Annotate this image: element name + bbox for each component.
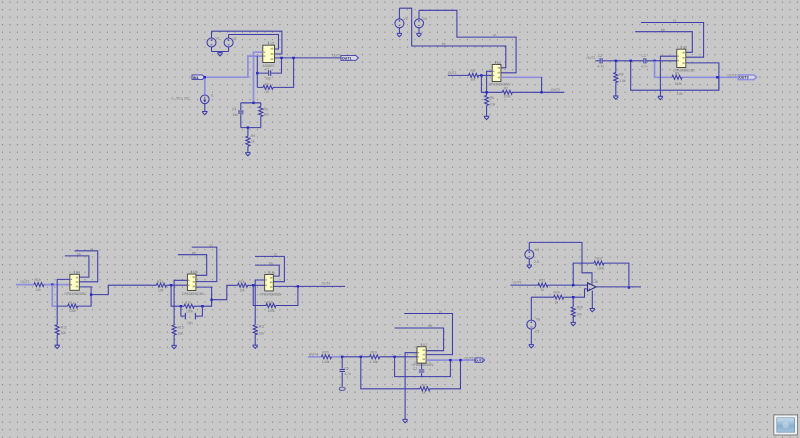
ground 0 below sources (217, 53, 222, 56)
svg-text:R13: R13 (157, 280, 163, 284)
wire net bb supply (255, 265, 279, 276)
svg-text:1k: 1k (266, 90, 270, 94)
ground 0 below R8 (613, 96, 618, 99)
junction (716, 76, 718, 78)
svg-text:1.8k: 1.8k (619, 79, 626, 83)
ground 0 below R11 (253, 345, 258, 348)
ground 0 below op-amp (590, 309, 595, 312)
junction (628, 286, 630, 288)
wire interstage A-B (91, 285, 156, 294)
svg-text:10k: 10k (36, 288, 42, 292)
wire RC top bus (241, 102, 261, 104)
wire net cc supply (641, 23, 704, 58)
wire to R19 (342, 356, 369, 358)
ground 0 below R15 (171, 345, 176, 348)
voltage source V6 (527, 297, 536, 344)
svg-text:100k: 100k (597, 267, 605, 271)
ground 0 below I1 (202, 112, 207, 115)
svg-text:OPA348AIDBV: OPA348AIDBV (673, 69, 696, 73)
junction (341, 356, 343, 358)
node IN tag (192, 75, 204, 80)
junction (360, 356, 362, 358)
node OUT3 tag (738, 75, 756, 80)
capacitor C2 (238, 103, 243, 128)
svg-text:10p: 10p (266, 77, 272, 81)
svg-text:OUT5: OUT5 (465, 356, 474, 360)
junction (540, 91, 542, 93)
svg-text:R19: R19 (371, 350, 377, 354)
resistor R20 (321, 355, 331, 359)
resistor R6 to ground (485, 92, 489, 116)
voltage source V3 (395, 8, 404, 33)
svg-text:U3: U3 (683, 45, 687, 49)
svg-text:R4: R4 (251, 134, 255, 138)
wire output OUT4 (273, 285, 345, 287)
wire net bb supply (65, 256, 89, 277)
node OUT1 tag (341, 56, 358, 61)
svg-text:V2: V2 (233, 37, 237, 41)
junction (480, 74, 482, 76)
wire input OUT4 (308, 356, 342, 358)
svg-text:C1: C1 (266, 68, 270, 72)
svg-text:R7: R7 (504, 87, 508, 91)
svg-text:R6: R6 (490, 96, 494, 100)
svg-text:cc: cc (439, 310, 443, 314)
svg-text:OUT5: OUT5 (475, 359, 484, 363)
svg-text:bb: bb (429, 324, 433, 328)
svg-text:10k: 10k (577, 313, 583, 317)
wire inverting node down (253, 285, 266, 305)
svg-text:bb: bb (77, 252, 81, 256)
svg-text:1.18k: 1.18k (370, 360, 378, 364)
capacitor C6 to ground (340, 357, 345, 386)
svg-text:10k: 10k (240, 288, 246, 292)
junction (459, 359, 461, 361)
svg-text:1k: 1k (555, 300, 559, 304)
wire inverting node vertical (256, 56, 258, 87)
svg-text:10k: 10k (264, 113, 270, 117)
svg-text:OUT2: OUT2 (587, 56, 596, 60)
svg-text:U4: U4 (76, 271, 80, 275)
ground 0 below V6 (529, 345, 534, 348)
wire node OUT2 stub (542, 91, 564, 93)
wire RC bottom bus (241, 127, 261, 129)
svg-text:1.8k: 1.8k (677, 92, 684, 96)
junction (210, 299, 212, 301)
wire inverting node down (481, 75, 486, 92)
op-amp U8 triangle (588, 283, 597, 292)
svg-text:4.7u: 4.7u (344, 372, 351, 376)
svg-text:2.5: 2.5 (535, 330, 540, 334)
resistor R17 feedback (181, 300, 212, 309)
wire IN tag to inverting input (204, 56, 263, 77)
resistor R19 (370, 355, 417, 359)
junction (393, 356, 395, 358)
wire output (196, 287, 212, 300)
icon scroll corner button (774, 415, 798, 435)
wire input OUT1 (448, 74, 469, 76)
svg-text:1k: 1k (541, 288, 545, 292)
resistor R25 to ground (571, 297, 575, 322)
resistor R12 to ground (55, 306, 59, 345)
svg-text:R15: R15 (178, 325, 184, 329)
svg-text:100k: 100k (69, 309, 77, 313)
svg-text:C2: C2 (598, 54, 602, 58)
voltage source V5 (525, 242, 534, 265)
resistor R22 (538, 283, 588, 287)
wire in+ to ground leg (487, 71, 493, 92)
svg-text:100k: 100k (675, 82, 683, 86)
junction (653, 60, 655, 62)
junction (204, 76, 206, 78)
svg-text:cc: cc (210, 244, 214, 248)
wire input OUT3 (16, 284, 70, 286)
svg-text:U7: U7 (423, 343, 427, 347)
op-amp U6 (265, 271, 274, 291)
wire net bb from V3 (399, 8, 505, 68)
wire V2 top to op-amp right pin (229, 35, 279, 50)
svg-text:cc: cc (493, 33, 497, 37)
svg-text:V1: V1 (216, 37, 220, 41)
op-amp U4 (70, 271, 79, 291)
capacitor C4 (644, 58, 677, 63)
svg-text:0. 50u 3k]: 0. 50u 3k] (172, 96, 190, 100)
wire net bb supply (178, 255, 207, 276)
wire net cc from V4 (419, 10, 516, 73)
op-amp U7 (417, 343, 426, 363)
svg-text:OPA348AIDBV: OPA348AIDBV (412, 363, 435, 367)
resistor R23 feedback (594, 261, 629, 287)
wire output down to feedback (541, 77, 543, 92)
wire net cc supply (255, 256, 284, 281)
node OUT5 tag (475, 358, 485, 362)
resistor R13 (156, 283, 187, 287)
svg-text:U2: U2 (497, 61, 501, 65)
junction (572, 284, 574, 286)
wire output (426, 359, 475, 361)
resistor R11 to ground (253, 306, 257, 346)
svg-text:10n: 10n (233, 113, 239, 117)
junction (170, 284, 172, 286)
svg-text:R23: R23 (596, 257, 602, 261)
resistor R15 to ground (172, 306, 176, 345)
svg-text:R12: R12 (61, 325, 67, 329)
svg-text:V6: V6 (536, 318, 540, 322)
junction (280, 57, 282, 59)
resistor R2 feedback (257, 59, 293, 89)
wire in+ to ground (660, 56, 676, 96)
svg-text:C4: C4 (232, 108, 236, 112)
resistor R14 feedback (57, 295, 91, 309)
ground 0 below V4 (416, 33, 421, 36)
ground 0 (402, 419, 407, 422)
ground 0 below V5 (527, 265, 532, 268)
svg-text:10n: 10n (187, 321, 193, 325)
svg-text:R16: R16 (239, 280, 245, 284)
svg-text:10k: 10k (259, 332, 265, 336)
wire input OUT5 (510, 284, 539, 286)
svg-text:R8: R8 (619, 73, 623, 77)
svg-text:R5: R5 (471, 69, 475, 73)
junction (90, 293, 92, 295)
svg-text:10k: 10k (158, 288, 164, 292)
wire in+ down (57, 279, 70, 306)
svg-text:bb: bb (269, 261, 273, 265)
wire net cc supply (75, 251, 98, 282)
wire in+ to RC network (254, 52, 263, 103)
svg-text:IN1: IN1 (193, 76, 199, 80)
voltage source V4 (415, 10, 424, 33)
svg-text:OUT1: OUT1 (448, 71, 457, 75)
resistor R21 feedback loop (361, 357, 461, 391)
capacitor C3 input (600, 58, 616, 63)
svg-text:R14: R14 (69, 301, 75, 305)
ground 0 below R25 (571, 322, 576, 325)
junction (485, 91, 487, 93)
wire net bb supply (635, 32, 692, 53)
svg-text:R25: R25 (577, 306, 583, 310)
svg-text:C7: C7 (413, 367, 417, 371)
wire V6 to R24 (531, 296, 553, 298)
wire feedback up (573, 263, 594, 285)
resistor R3 (241, 103, 263, 128)
junction (615, 60, 617, 62)
resistor R18 feedback (266, 286, 298, 307)
ground 0 below V3 (397, 33, 402, 36)
junction (630, 60, 632, 62)
svg-text:V4: V4 (423, 17, 427, 21)
svg-text:R18: R18 (267, 301, 273, 305)
wire net cc supply (404, 314, 452, 355)
voltage source V2 (224, 35, 233, 52)
svg-text:OUT1: OUT1 (342, 56, 352, 60)
junction (297, 285, 299, 287)
svg-text:bb: bb (442, 42, 446, 46)
svg-text:C6: C6 (344, 366, 348, 370)
svg-text:4.7u: 4.7u (641, 65, 648, 69)
junction (572, 296, 574, 298)
wire in+ jog (573, 289, 587, 297)
wire inverting node down (52, 285, 57, 307)
svg-text:100k: 100k (186, 309, 194, 313)
wire output loop (686, 63, 719, 90)
ground 0 oval (339, 387, 345, 390)
resistor R24 (554, 295, 574, 299)
wire net bb supply (395, 328, 444, 351)
op-amp U5 (187, 271, 196, 291)
resistor R5 (469, 73, 493, 77)
junction (292, 57, 294, 59)
svg-text:V5: V5 (535, 248, 539, 252)
svg-text:OPA348AIDBV: OPA348AIDBV (260, 292, 283, 296)
svg-text:cc: cc (673, 19, 677, 23)
capacitor C1 feedback (257, 59, 281, 76)
svg-text:OUT1: OUT1 (332, 54, 341, 58)
svg-text:bb: bb (661, 28, 665, 32)
wire net cc supply (192, 247, 217, 282)
svg-text:OUT2: OUT2 (551, 88, 560, 92)
resistor R9 feedback (672, 75, 682, 79)
svg-text:cc: cc (90, 247, 94, 251)
svg-text:R21: R21 (422, 383, 428, 387)
svg-text:OUT3: OUT3 (728, 73, 737, 77)
wire V5 to op-amp V+ (529, 242, 592, 284)
svg-text:cc: cc (274, 253, 278, 257)
svg-text:OPA348AIDBV: OPA348AIDBV (65, 292, 88, 296)
wire V1 top to op-amp right pin (212, 31, 282, 54)
junction (51, 283, 53, 285)
wire interstage B-C (212, 285, 238, 299)
svg-text:U8: U8 (594, 280, 598, 284)
svg-text:C3: C3 (642, 54, 646, 58)
svg-text:R22: R22 (539, 279, 545, 283)
op-amp U3 (677, 46, 686, 68)
svg-text:R2: R2 (265, 82, 269, 86)
svg-text:OPA348AIDBV: OPA348AIDBV (182, 292, 205, 296)
resistor R8 to ground (614, 61, 618, 96)
svg-text:1k: 1k (422, 391, 426, 395)
wire inverting node to C7 bottom (395, 357, 451, 377)
resistor R4 to ground (246, 128, 250, 153)
wire output (501, 76, 542, 78)
junction (252, 102, 254, 104)
wire input OUT2 (595, 60, 599, 62)
resistor R7 feedback (487, 90, 542, 94)
svg-text:10k: 10k (61, 331, 67, 335)
junction (201, 305, 203, 307)
svg-text:R20: R20 (323, 350, 329, 354)
resistor R10 (34, 283, 44, 287)
wire in+ to ground (405, 353, 417, 420)
wire output (275, 57, 341, 59)
svg-text:OUT3: OUT3 (21, 280, 30, 284)
junction (180, 305, 182, 307)
svg-text:R10: R10 (35, 278, 41, 282)
wire in+ down (174, 280, 187, 306)
svg-text:U1: U1 (271, 41, 275, 45)
op-amp U2 (492, 61, 501, 82)
wire source bottoms join (212, 52, 229, 53)
capacitor C7 (419, 363, 424, 377)
junction (247, 126, 249, 128)
wire to C4 (616, 60, 643, 62)
ground 0 below R12 (55, 345, 60, 348)
ground 0 below R4 (245, 153, 250, 156)
svg-text:10k: 10k (471, 78, 477, 82)
svg-text:1.18k: 1.18k (322, 360, 330, 364)
junction (449, 359, 451, 361)
svg-text:V3: V3 (404, 17, 408, 21)
wire bottom loop (631, 61, 719, 90)
resistor R16 (238, 283, 265, 287)
svg-text:OUT5: OUT5 (513, 281, 522, 285)
svg-text:OUT4: OUT4 (309, 352, 318, 356)
svg-text:4.7u: 4.7u (598, 65, 605, 69)
svg-text:U5: U5 (193, 270, 197, 274)
op-amp U1 AD8607 (263, 42, 275, 63)
svg-text:10k: 10k (490, 103, 496, 107)
svg-text:10k: 10k (178, 332, 184, 336)
svg-text:R3: R3 (264, 108, 268, 112)
ground 0 below R6 (484, 116, 489, 119)
svg-text:R11: R11 (259, 325, 265, 329)
capacitor C5 parallel feedback (181, 306, 203, 319)
svg-text:bb: bb (192, 251, 196, 255)
wire in+ down (255, 280, 265, 306)
wire output (596, 286, 641, 288)
voltage source V1 (207, 31, 216, 51)
current source I1 (201, 95, 210, 112)
wire output (79, 287, 91, 295)
svg-text:OUT4: OUT4 (322, 282, 331, 286)
wire inverting feedback down (655, 61, 739, 78)
wire junction to current source (204, 77, 206, 94)
svg-text:R17: R17 (185, 301, 191, 305)
svg-text:2.5: 2.5 (534, 260, 539, 264)
svg-text:100k: 100k (268, 309, 276, 313)
svg-text:1k: 1k (251, 140, 255, 144)
svg-text:I1: I1 (211, 94, 214, 98)
ground 0 (658, 96, 663, 99)
svg-text:U6: U6 (270, 271, 274, 275)
svg-text:OUT3: OUT3 (739, 76, 749, 80)
junction (256, 72, 258, 74)
wire V- to ground (591, 291, 593, 309)
svg-text:R24: R24 (554, 291, 560, 295)
svg-text:100k: 100k (504, 95, 512, 99)
junction (252, 284, 254, 286)
wire inverting node down (171, 285, 181, 306)
